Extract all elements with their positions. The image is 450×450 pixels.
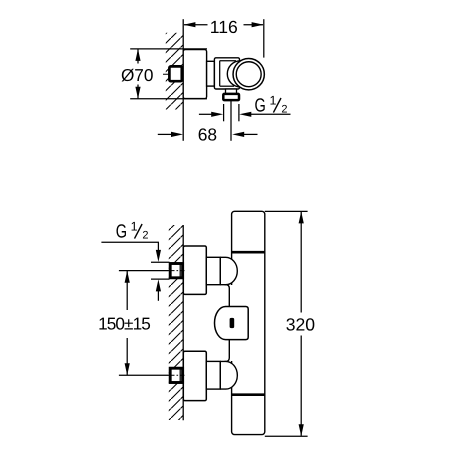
mixer column (side view) xyxy=(232,211,265,434)
knob button xyxy=(230,318,235,328)
knob inner circle (top view) xyxy=(236,62,261,87)
column bottom seam line (thick) xyxy=(232,393,265,396)
body bracket inner lines (top view) xyxy=(219,61,221,86)
G 1/2 upper extension line at nut top xyxy=(151,261,170,263)
upper union centerline: solid extension + dash-dot xyxy=(119,270,169,272)
dimension 68 right arrow (top view) xyxy=(243,133,257,135)
svg-text:Ø70: Ø70 xyxy=(121,65,154,85)
lower union centerline: solid extension + dash-dot xyxy=(119,374,169,376)
svg-text:2: 2 xyxy=(281,103,287,115)
column top seam line (thick) xyxy=(232,251,265,254)
wall line (side view) xyxy=(182,225,184,420)
dimension 68 left arrow (top view) xyxy=(158,133,173,135)
G 1/2 lower extension line at nut bottom xyxy=(151,278,170,280)
upper wall nut (side view) xyxy=(170,264,182,278)
upper connector right edge restored xyxy=(219,257,221,284)
upper escutcheon (side view) xyxy=(183,246,206,294)
centerline through wall nut (top view) xyxy=(163,73,185,75)
svg-text:1: 1 xyxy=(131,220,138,234)
dimension 116 line right arrow xyxy=(244,24,264,26)
lower dome (side view) xyxy=(220,361,237,389)
upper nut inner line xyxy=(179,264,181,278)
G 1/2 upper arrow pointing down xyxy=(157,242,159,252)
dimension D70 upper segment with up arrow xyxy=(137,49,139,63)
upper dome (side view) xyxy=(220,257,237,284)
dimension 150+-15 upper segment with up arrow xyxy=(126,271,128,310)
G 1/2 lower arrow pointing up xyxy=(156,279,161,291)
outlet neck (top view) xyxy=(226,89,237,94)
lower wall nut (side view) xyxy=(170,368,182,382)
G 1/2 dimension left arrow (top view) xyxy=(199,113,213,115)
wall nut (top view) xyxy=(169,66,181,81)
svg-text:G: G xyxy=(255,96,266,117)
dimension 320 lower segment with down arrow xyxy=(300,336,302,436)
knob outer circle (top view) xyxy=(233,59,264,90)
lower escutcheon (side view) xyxy=(183,351,206,400)
outlet pipe centerline going down (top view) xyxy=(230,100,232,141)
dimension 320 upper segment with up arrow xyxy=(300,212,302,313)
wall hatch (top view) xyxy=(166,33,183,110)
valve body (top view) xyxy=(214,58,239,89)
lower connector right edge restored xyxy=(219,361,221,389)
temperature knob (side view) xyxy=(215,307,249,340)
svg-text:320: 320 xyxy=(286,314,316,334)
central housing bump outline xyxy=(225,285,230,362)
G 1/2 leader line (side view) xyxy=(101,241,158,243)
G 1/2 extension line right (top view) xyxy=(238,104,240,121)
320 extension line bottom (side view) xyxy=(265,435,308,437)
knob back plate circle (top view) xyxy=(227,61,253,87)
lower connector (side view) xyxy=(206,361,220,389)
dimension 116 line left arrow xyxy=(184,24,208,26)
extension line bottom for diameter 70 xyxy=(130,98,207,100)
svg-text:150±15: 150±15 xyxy=(98,313,150,333)
escutcheon edge-on (top view) xyxy=(183,50,206,99)
lower nut inner line xyxy=(179,368,181,382)
dimension 150+-15 lower segment with down arrow xyxy=(126,338,128,375)
outlet nut (top view) xyxy=(223,94,239,100)
svg-text:G: G xyxy=(116,222,127,243)
wall hatch (side view) xyxy=(169,225,183,420)
neck between escutcheon and body (top view) xyxy=(207,61,215,86)
svg-text:68: 68 xyxy=(198,125,217,145)
svg-text:1: 1 xyxy=(270,94,277,108)
extension line right for 116 xyxy=(263,19,265,57)
wall line (top view, also 116 and 68 extension line) xyxy=(182,19,184,141)
G 1/2 extension line left (top view) xyxy=(223,104,225,121)
upper connector (side view) xyxy=(206,257,220,284)
dimension D70 lower segment with down arrow xyxy=(137,85,139,99)
extension line top for diameter 70 xyxy=(130,48,207,50)
G 1/2 dimension right arrow (top view) xyxy=(250,113,291,115)
G 1/2 label (side view) xyxy=(116,220,149,243)
svg-text:116: 116 xyxy=(210,17,238,37)
svg-text:2: 2 xyxy=(142,229,148,241)
label G 1/2 (top view) xyxy=(255,94,288,117)
central housing white mask xyxy=(229,285,246,361)
320 extension line top (side view) xyxy=(265,210,308,212)
